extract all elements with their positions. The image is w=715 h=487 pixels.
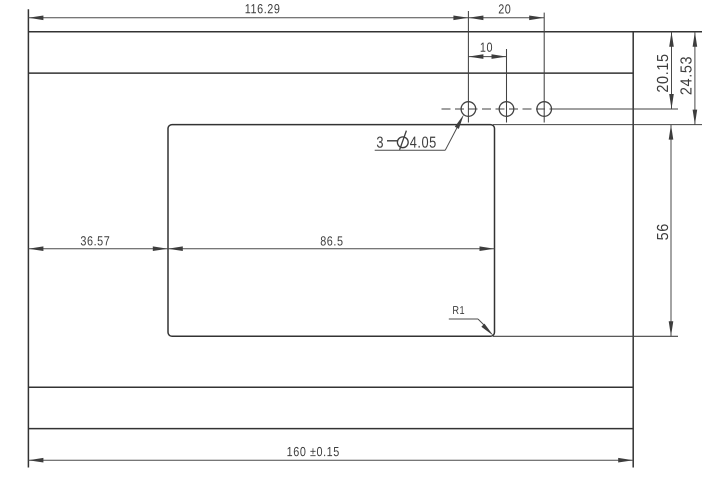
dimension 20 xyxy=(468,1,544,20)
hole H3 xyxy=(537,102,552,117)
window cutout xyxy=(168,125,495,337)
svg-text:86.5: 86.5 xyxy=(320,233,343,248)
hole H2 xyxy=(499,102,514,117)
lower step line xyxy=(28,386,633,388)
dimension 24.53 xyxy=(678,32,697,125)
svg-text:160 ±0.15: 160 ±0.15 xyxy=(287,444,340,459)
dimension 36.57 xyxy=(28,233,167,251)
svg-text:20.15: 20.15 xyxy=(654,53,672,92)
svg-text:24.53: 24.53 xyxy=(678,56,696,95)
dimension 56 xyxy=(654,125,673,337)
dimension 86.5 xyxy=(168,233,495,251)
part top edge (with right extension) xyxy=(28,31,702,33)
dimension 116.29 xyxy=(28,1,468,20)
svg-text:56: 56 xyxy=(654,223,672,240)
dimension 160 ±0.15 xyxy=(28,444,633,462)
svg-text:R1: R1 xyxy=(452,305,465,317)
dimension 20.15 xyxy=(654,32,673,109)
hole H3 vertical centerline xyxy=(543,13,545,123)
dimension 10 xyxy=(468,40,506,59)
cutout top extension line xyxy=(493,124,702,126)
holes horizontal centerline xyxy=(442,108,557,110)
hole H2 vertical centerline xyxy=(506,49,508,123)
leader 3-Ø4.05 xyxy=(375,115,464,153)
svg-text:20: 20 xyxy=(498,1,511,16)
svg-text:4.05: 4.05 xyxy=(410,134,437,152)
svg-text:36.57: 36.57 xyxy=(80,233,110,248)
upper step line xyxy=(28,72,633,74)
leader R1 xyxy=(449,305,494,336)
svg-text:116.29: 116.29 xyxy=(245,1,281,16)
hole H1 xyxy=(461,102,476,117)
part right edge (with bottom extension) xyxy=(632,32,634,468)
hole H1 vertical centerline xyxy=(467,11,469,123)
svg-text:3: 3 xyxy=(376,134,384,152)
part bottom edge xyxy=(28,428,633,430)
part left edge (with extensions) xyxy=(27,9,29,467)
svg-text:10: 10 xyxy=(480,40,493,55)
cutout bottom extension line xyxy=(493,335,678,337)
